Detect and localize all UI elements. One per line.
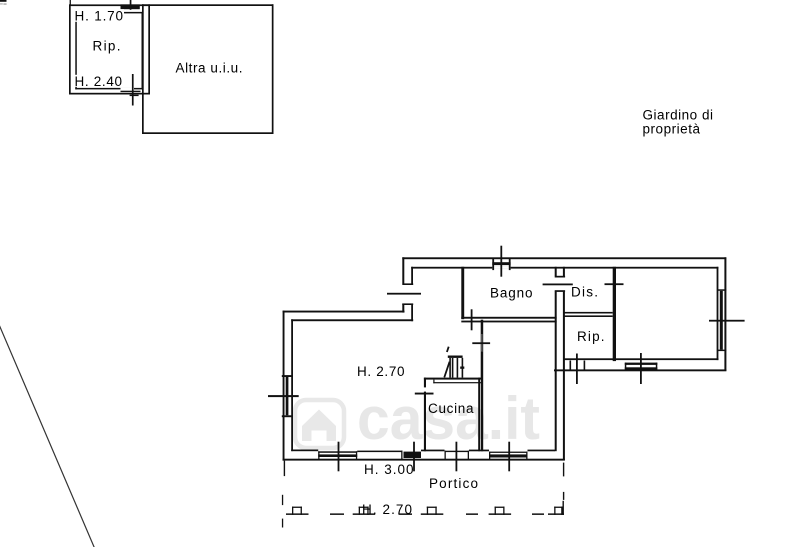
svg-text:Altra u.i.u.: Altra u.i.u. [176,60,243,75]
svg-text:H. 2.70: H. 2.70 [362,502,412,517]
outer left wall living [283,311,285,461]
tick v rip door [576,354,578,385]
cucina left wall segs (door gap) [424,378,426,388]
tick top window [130,0,132,10]
inner top wall [411,267,718,269]
wall seg [469,450,489,452]
svg-text:Rip.: Rip. [93,39,121,54]
cucina right wall [478,378,480,452]
svg-text:H. 2.40: H. 2.40 [75,74,123,89]
inner right wall [717,267,719,360]
top wall window above bagno [492,267,510,269]
post 3 [421,513,444,515]
dis bottom wall [565,312,613,314]
right outer wall window [717,289,726,291]
window4 [489,452,528,453]
cucina top wall [424,378,481,380]
wall seg [421,450,445,452]
tick v window1 [338,442,340,472]
window1 [318,451,357,453]
stairs arrow diagonal [444,362,449,378]
post 2 [353,513,376,515]
svg-text:Cucina: Cucina [428,401,474,416]
tick h left window [268,395,299,397]
tick h living/unnamed door [472,342,490,344]
outer top wall living [283,311,405,313]
tick top corner [70,0,71,5]
tick h upper-left door [387,293,421,295]
bagno right wall segs (door gap) [555,267,557,276]
tick h cucina door [415,393,434,395]
outer right wall [724,257,726,371]
outer upper-left wall segs (door gap) [402,257,404,283]
dash [399,513,413,515]
tick h dis right wall [605,283,624,285]
dis-rip right wall [613,267,616,361]
window3 black [404,452,422,458]
svg-text:Bagno: Bagno [490,285,533,300]
tick v right bottom window [640,353,642,384]
bagno bottom wall line2 [461,321,556,323]
outer bottom wall living [283,459,565,461]
wall living/unnamed segs (door gap) [481,320,484,334]
tick h bagno-dis door [543,284,573,286]
diagonal boundary line [0,325,95,547]
cucina notch inner line [433,382,481,383]
corner post [548,513,564,515]
svg-text:Portico: Portico [429,476,478,491]
svg-text:H. 1.70: H. 1.70 [75,8,124,23]
open door [445,451,470,452]
right section bottom window [625,363,658,365]
svg-text:Giardino di: Giardino di [643,107,714,122]
svg-text:Rip.: Rip. [577,329,605,344]
Rip inner wall rect [75,12,143,90]
inner bottom wall living left seg [291,450,318,452]
outer bottom wall right section [554,369,726,371]
tick bottom door [132,74,134,106]
outer top wall [402,257,726,259]
inner top wall living [291,319,413,321]
tick h right window [709,320,745,322]
door caps upper-left wall [402,283,413,285]
inner left wall living [291,319,293,451]
inner upper-left wall segs (door gap) [411,267,413,284]
tick v open door [456,442,458,472]
dash [330,513,344,515]
svg-text:proprietà: proprietà [643,122,701,137]
svg-text:Dis.: Dis. [571,285,598,300]
tick v bagno bottom left [471,309,473,330]
Rip outer wall rect [69,4,150,94]
post 4 [489,513,512,515]
post 1 [286,513,309,515]
wall seg [528,450,556,452]
bagno left wall [461,267,464,319]
dis left wall segs (door gap) [563,267,565,276]
bagno bottom wall line1 [461,317,556,319]
tick v window3 [413,442,415,472]
window2 [357,451,402,453]
tick v window4 [508,442,510,472]
Rip top window black [121,4,140,9]
rip bottom door jambs [570,361,572,371]
svg-text:H. 3.00: H. 3.00 [364,462,414,477]
watermark casa.it logo [295,400,344,448]
corner stubs below bottom wall [284,461,285,477]
label H. 1.70 [74,9,125,22]
label H. 2.40 [74,75,125,87]
tick v top window [500,246,502,277]
Altra u.i.u. rect [142,4,274,134]
corner artifact top-left [0,0,7,2]
svg-text:H. 2.70: H. 2.70 [357,364,405,379]
dash [466,513,478,515]
inner bottom right section [564,358,719,360]
dash [532,513,544,515]
bagno-dis door caps [555,276,565,278]
left vertical dashes [282,495,283,505]
svg-text:casa.it: casa.it [357,385,540,452]
Rip bottom door gap [121,88,135,90]
